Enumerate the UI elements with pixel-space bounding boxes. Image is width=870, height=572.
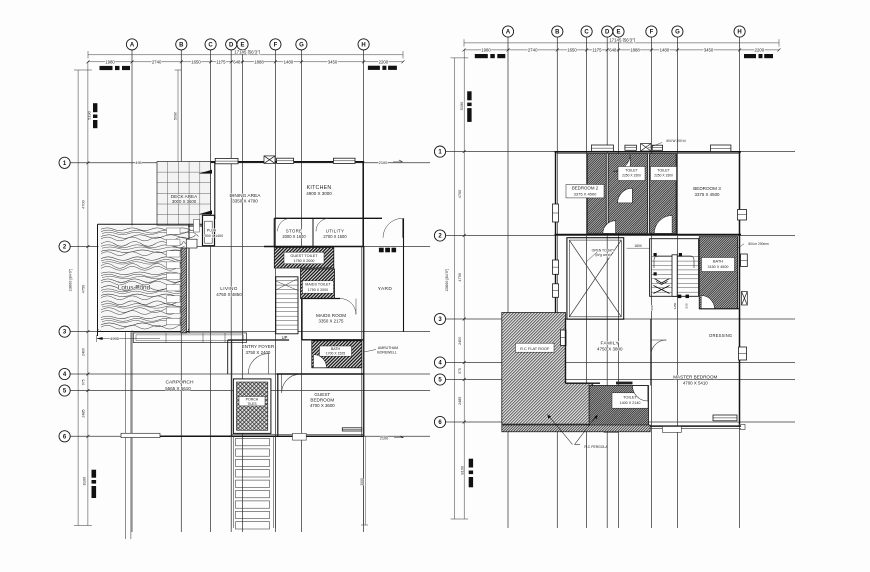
svg-text:3000: 3000 (360, 478, 364, 486)
svg-text:1888: 1888 (254, 59, 264, 64)
svg-text:BATH: BATH (713, 259, 723, 264)
svg-text:5190: 5190 (87, 110, 92, 119)
right plan: vertical dimension lines (454, 58, 456, 519)
svg-text:2250 X 1500: 2250 X 1500 (654, 174, 673, 178)
left plan: top-right scale blocks (368, 66, 380, 70)
left plan: store left wall (273, 218, 275, 246)
svg-text:BEDROOM 2: BEDROOM 2 (572, 186, 599, 191)
svg-text:604 W 200 lvl: 604 W 200 lvl (666, 139, 686, 143)
left plan: overall top dimension line 17145 (88, 54, 403, 56)
right plan: door arcs in hatched band (603, 221, 616, 234)
right plan: left wall upper (555, 152, 557, 319)
svg-text:STORE: STORE (286, 229, 303, 234)
svg-text:3450: 3450 (328, 59, 338, 64)
svg-text:MAIDS TOILET: MAIDS TOILET (305, 283, 331, 287)
svg-text:600: 600 (650, 305, 654, 310)
svg-text:2250 X 1500: 2250 X 1500 (622, 174, 641, 178)
svg-text:1888: 1888 (630, 47, 640, 52)
svg-text:(liv'g area): (liv'g area) (595, 253, 610, 257)
left plan: kitchen window 1 (277, 158, 294, 163)
right plan: rc pergola label + leaders (548, 415, 573, 445)
right plan: labels bedroom2/toilets (566, 185, 604, 198)
svg-text:F: F (274, 43, 278, 49)
svg-text:975: 975 (458, 368, 462, 374)
right plan: overall top dimension line 17145 (464, 42, 779, 44)
svg-text:R.C PERGOLA: R.C PERGOLA (584, 445, 608, 449)
svg-text:GUEST TOILET: GUEST TOILET (290, 254, 318, 258)
right plan: left wall windows middle (553, 260, 559, 274)
svg-text:4700: 4700 (457, 189, 462, 198)
svg-text:900 X 1400: 900 X 1400 (205, 234, 223, 238)
svg-text:1980: 1980 (105, 59, 115, 64)
right plan: 1800 dim (627, 247, 650, 249)
svg-text:3375 X 4500: 3375 X 4500 (695, 192, 720, 197)
svg-text:4700 X 5410: 4700 X 5410 (683, 381, 708, 386)
svg-text:1750 X 2000: 1750 X 2000 (308, 288, 328, 292)
left plan: bottom small step (293, 433, 307, 440)
svg-text:1750 X 2000: 1750 X 2000 (294, 259, 315, 263)
right plan: column grid lines A-H (507, 37, 509, 528)
svg-text:2400: 2400 (458, 337, 462, 345)
right plan: bottom windows (713, 415, 737, 421)
svg-text:CARPORCH: CARPORCH (166, 379, 194, 385)
right plan: grid bubbles 1-6 (434, 146, 445, 157)
left plan: vertical dimension lines (77, 70, 79, 526)
svg-text:4700: 4700 (81, 199, 86, 208)
svg-text:2100: 2100 (380, 436, 389, 441)
left plan: bottom wall row6 (121, 435, 364, 437)
svg-text:648: 648 (609, 47, 617, 52)
svg-text:5190: 5190 (459, 101, 464, 110)
left plan: grid bubbles A-H (126, 39, 137, 50)
right plan: outer top wall (555, 151, 742, 153)
svg-text:C: C (208, 43, 213, 49)
svg-text:2200: 2200 (379, 59, 389, 64)
svg-text:OPEN TO SKY: OPEN TO SKY (592, 248, 616, 252)
svg-text:2485: 2485 (458, 397, 462, 405)
svg-text:1250: 1250 (673, 302, 677, 309)
svg-text:2400: 2400 (82, 348, 86, 356)
svg-text:B: B (179, 43, 184, 49)
svg-text:TOILET: TOILET (625, 168, 638, 172)
svg-text:1400 X 2140: 1400 X 2140 (620, 401, 641, 405)
svg-text:Lotus Pond: Lotus Pond (118, 285, 151, 292)
right plan: open-to-sky X box (567, 238, 624, 320)
right plan: row2 wall band (555, 234, 742, 236)
svg-text:1650: 1650 (191, 59, 201, 64)
right plan: top-right scale blocks (744, 54, 756, 58)
svg-text:23600 [84'0"]: 23600 [84'0"] (444, 269, 449, 292)
svg-text:648: 648 (233, 59, 241, 64)
left plan: wash blocks at yard (379, 248, 384, 253)
left plan: maids room door arc (340, 299, 356, 315)
left plan: store door arc (278, 218, 291, 231)
left plan: store/utility divider wall (312, 218, 314, 246)
left plan: amrutham borewell label (364, 350, 376, 353)
svg-text:3350 X 2175: 3350 X 2175 (319, 318, 344, 323)
svg-text:1650: 1650 (567, 47, 577, 52)
svg-text:BATH: BATH (331, 347, 341, 351)
svg-text:1480: 1480 (660, 47, 670, 52)
svg-text:AMRUTHAM: AMRUTHAM (378, 346, 398, 350)
svg-text:MAIDS ROOM: MAIDS ROOM (316, 313, 346, 318)
svg-text:1800: 1800 (634, 244, 642, 248)
left plan: right wall upper (362, 162, 364, 247)
right plan: family room walls (565, 319, 567, 383)
svg-text:23600 [84'0"]: 23600 [84'0"] (68, 269, 73, 292)
svg-text:G: G (675, 30, 680, 36)
svg-text:17145 [56'3"]: 17145 [56'3"] (609, 38, 635, 43)
right plan: master east window (739, 347, 747, 360)
left plan: segment top dimension line (88, 61, 403, 63)
left plan: guest bedroom door arc (282, 374, 301, 393)
svg-text:1980: 1980 (481, 47, 491, 52)
right plan: window leader text (648, 143, 662, 149)
svg-text:GUEST: GUEST (314, 392, 330, 397)
svg-text:MASTER BEDROOM: MASTER BEDROOM (673, 375, 717, 380)
svg-text:530: 530 (685, 303, 689, 308)
left plan: foyer-carporch wall (231, 340, 233, 436)
svg-text:TOILET: TOILET (657, 168, 670, 172)
svg-text:2740: 2740 (152, 59, 162, 64)
svg-text:TILES: TILES (247, 402, 257, 406)
right plan: toilet divider walls (606, 154, 608, 234)
svg-text:H: H (737, 30, 741, 36)
svg-text:3450: 3450 (704, 47, 714, 52)
svg-text:4750: 4750 (81, 284, 86, 293)
svg-text:BEDROOM: BEDROOM (310, 397, 334, 402)
svg-text:1175: 1175 (216, 59, 226, 64)
left plan: bottom wall window (342, 428, 362, 431)
svg-text:3750 X 2400: 3750 X 2400 (245, 350, 270, 355)
svg-text:1480: 1480 (284, 59, 294, 64)
svg-text:F: F (650, 30, 654, 36)
svg-text:3150 X 4500: 3150 X 4500 (708, 265, 729, 269)
left plan: top-left scale blocks (100, 66, 113, 70)
svg-text:E: E (616, 30, 620, 36)
left plan: top wall (211, 161, 365, 163)
right plan: family-toilet door arc (633, 386, 648, 401)
svg-text:5090: 5090 (173, 112, 177, 120)
right plan: left wall window upper (553, 204, 559, 222)
left plan: store/utility top wall (274, 217, 364, 219)
left plan: row grid lines 1-6 (70, 162, 430, 164)
left plan: column grid lines A-H (131, 50, 133, 532)
svg-text:1175: 1175 (592, 47, 602, 52)
svg-text:C: C (584, 30, 589, 36)
right plan: right side fixtures (741, 254, 748, 267)
right plan: right wall (739, 152, 741, 427)
left plan: staircase (276, 277, 298, 334)
left plan: yard right wall (403, 218, 405, 331)
svg-text:4995: 4995 (110, 336, 119, 341)
right plan: bath leader text (738, 244, 744, 248)
left plan: deck-dining divider wall (214, 162, 216, 220)
svg-text:D: D (605, 30, 610, 36)
svg-text:3375 X 4500: 3375 X 4500 (574, 191, 597, 196)
svg-text:2485: 2485 (82, 409, 86, 417)
svg-text:PORCH: PORCH (246, 397, 259, 401)
left plan: porch crosshatch pavers (233, 379, 271, 434)
svg-text:D: D (229, 43, 234, 49)
svg-text:8100: 8100 (82, 476, 87, 485)
svg-text:4750 X 3800: 4750 X 3800 (597, 347, 623, 352)
svg-text:2000 X 1600: 2000 X 1600 (282, 234, 306, 239)
svg-text:H: H (361, 43, 365, 49)
svg-text:604 m 200mm: 604 m 200mm (748, 242, 769, 246)
svg-text:5565 X 5610: 5565 X 5610 (165, 386, 191, 391)
svg-text:17145 [56'3"]: 17145 [56'3"] (234, 49, 260, 54)
left plan: puja room walls (203, 215, 215, 245)
left plan: window on deck top wall (215, 158, 238, 163)
left plan: guest bedroom walls row4 (277, 373, 365, 375)
svg-text:R.C FLAT ROOF: R.C FLAT ROOF (520, 346, 550, 351)
left plan: deck area tile grid (157, 162, 211, 226)
left plan: grid bubbles 1-6 (59, 157, 70, 168)
svg-text:4750 X 4850: 4750 X 4850 (216, 292, 242, 297)
left plan: kitchen window 2 (333, 158, 355, 163)
svg-text:UP: UP (282, 335, 288, 340)
svg-text:A: A (130, 43, 135, 49)
left plan: 5090 vertical dim at grid B (177, 70, 179, 163)
left plan: 4995 dimension (97, 338, 160, 340)
svg-text:3000 X 3600: 3000 X 3600 (172, 199, 197, 204)
right plan: top-left scale blocks (475, 54, 488, 58)
right plan: top wall windows (591, 145, 613, 151)
svg-text:A: A (506, 30, 511, 36)
left plan: walkway slabs (236, 439, 270, 446)
svg-text:4700 X 3600: 4700 X 3600 (310, 403, 335, 408)
left plan: yard top wall and door (364, 217, 382, 219)
svg-text:975: 975 (82, 379, 86, 385)
svg-text:DRESSING: DRESSING (709, 333, 732, 338)
left plan: deck strip below pond (133, 333, 246, 343)
svg-text:1700 X 1525: 1700 X 1525 (326, 352, 345, 356)
svg-text:2700 X 1500: 2700 X 1500 (323, 234, 347, 239)
right plan: family-master divider (650, 319, 652, 386)
svg-text:495: 495 (135, 161, 141, 165)
left plan: lotus pond boundary walls (97, 224, 99, 336)
svg-text:8100: 8100 (459, 465, 464, 474)
svg-text:4900 X 3000: 4900 X 3000 (306, 191, 332, 196)
left plan: right lower boundary dim 3000 (363, 436, 365, 525)
right plan: segment top dimension line (464, 49, 779, 51)
svg-text:2100: 2100 (379, 160, 388, 165)
left plan: maids room walls (301, 299, 303, 340)
svg-text:B: B (555, 30, 560, 36)
right plan: bottom wall (593, 425, 741, 427)
svg-text:BOREWELL: BOREWELL (377, 351, 397, 355)
right plan: master door arc (651, 340, 667, 356)
svg-text:PUJA: PUJA (207, 229, 217, 233)
left plan: plot boundary west double line (124, 332, 126, 539)
svg-text:4750: 4750 (457, 272, 462, 281)
svg-text:E: E (240, 43, 244, 49)
left plan: guest bedroom left wall (277, 375, 279, 437)
left plan: pond stepping stones (167, 228, 181, 234)
svg-text:YARD: YARD (378, 286, 393, 292)
left plan: row2 wall through store band (264, 246, 364, 248)
left plan: lotus pond wavy water (99, 226, 189, 331)
left plan: crossed window box kitchen (264, 156, 275, 164)
svg-text:BEDROOM 3: BEDROOM 3 (693, 186, 721, 191)
left plan: walkway rails (230, 436, 232, 528)
svg-text:3350 X 4700: 3350 X 4700 (232, 198, 258, 203)
svg-text:2200: 2200 (755, 47, 765, 52)
right plan: staircase (650, 239, 699, 297)
left plan: deck door swing wedges (199, 170, 213, 174)
left plan: entry door arc (248, 354, 268, 374)
right plan: right wall window (738, 210, 747, 221)
right plan: family bottom window sill (616, 382, 633, 385)
svg-text:2740: 2740 (528, 47, 538, 52)
left plan: entry foyer walls (228, 339, 289, 341)
left plan: utility door arc (316, 218, 329, 231)
right plan: row grid lines 1-6 (446, 151, 795, 153)
right plan: grid bubbles A-H (502, 26, 513, 37)
right plan: family west wall window (561, 330, 567, 346)
svg-text:ENTRY FOYER: ENTRY FOYER (242, 344, 275, 349)
svg-text:UTILITY: UTILITY (326, 229, 344, 234)
svg-text:G: G (299, 43, 304, 49)
